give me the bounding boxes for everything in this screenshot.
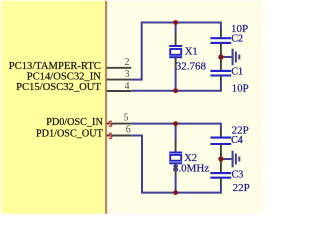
pin 5 line xyxy=(107,123,132,125)
background sheet xyxy=(0,0,265,217)
crystal X2 xyxy=(169,153,182,164)
junction: bottom rail / X1 xyxy=(173,88,178,93)
no-ERC marker pin 6 xyxy=(109,133,112,138)
pin: X2 bottom lead xyxy=(175,163,177,175)
wire: right column bottom segment xyxy=(220,83,221,91)
no-ERC marker pin 5 xyxy=(109,121,112,126)
svg-text:6: 6 xyxy=(126,125,131,136)
svg-text:PC15/OSC32_OUT: PC15/OSC32_OUT xyxy=(16,82,101,93)
wire: X1 bottom xyxy=(175,69,177,91)
svg-text:PD0/OSC_IN: PD0/OSC_IN xyxy=(46,117,103,128)
wire: pin5 rail of 8MHz circuit xyxy=(131,123,221,125)
wire: top rail of 32.768k circuit xyxy=(142,22,221,24)
pin: X2 top lead xyxy=(175,141,177,153)
crystal X1 xyxy=(169,46,182,57)
pin: C3 bottom lead xyxy=(220,178,222,187)
svg-text:PD1/OSC_OUT: PD1/OSC_OUT xyxy=(36,129,104,140)
svg-text:C3: C3 xyxy=(232,169,244,180)
svg-text:5: 5 xyxy=(124,113,129,124)
wire: right column bottom segment (8MHz) xyxy=(220,186,221,193)
wire: right column top segment (8MHz) xyxy=(220,124,221,131)
ground GND2 stub xyxy=(222,158,232,160)
wire: left vertical pin6 down xyxy=(141,135,143,193)
wire: left vertical to pin 3 xyxy=(141,22,143,80)
ground GND1 xyxy=(233,49,240,66)
svg-text:4: 4 xyxy=(125,81,130,92)
capacitor C3 xyxy=(210,173,231,178)
pin: X1 top lead xyxy=(175,33,177,46)
svg-text:PC13/TAMPER-RTC: PC13/TAMPER-RTC xyxy=(9,61,101,72)
pin: C1 bottom lead xyxy=(220,76,222,85)
pin: C2 top lead xyxy=(220,30,222,38)
svg-text:22P: 22P xyxy=(233,182,250,194)
sheet part right border xyxy=(105,1,107,214)
ground GND2 xyxy=(233,151,240,168)
svg-text:8.0MHz: 8.0MHz xyxy=(173,163,209,175)
svg-text:10P: 10P xyxy=(232,82,249,94)
svg-text:PC14/OSC32_IN: PC14/OSC32_IN xyxy=(27,72,102,83)
junction: C4/C3/ground xyxy=(218,156,223,161)
junction: pin5 rail / X2 xyxy=(173,121,178,126)
pin 6 line xyxy=(107,135,132,137)
sheet part body U? (yellow block) xyxy=(1,1,105,214)
wire: bottom rail of 8MHz circuit xyxy=(141,192,221,194)
junction: C2/C1/ground xyxy=(218,54,223,59)
wire: X1 top xyxy=(175,23,177,35)
wire: right column top segment xyxy=(220,23,221,32)
svg-text:C1: C1 xyxy=(231,67,243,78)
junction: bottom rail / X2 xyxy=(173,190,178,195)
pin: C4 top lead xyxy=(220,130,222,138)
ground GND1 stub xyxy=(222,56,232,58)
wire: pin 3 stub xyxy=(131,79,142,81)
svg-text:C2: C2 xyxy=(231,33,243,44)
pin 3 line xyxy=(107,79,132,81)
wire: X2 top xyxy=(175,124,177,142)
capacitor C2 xyxy=(210,38,231,43)
wire: X2 bottom xyxy=(175,175,177,193)
svg-text:X1: X1 xyxy=(185,46,198,57)
svg-text:2: 2 xyxy=(125,57,130,68)
capacitor C1 xyxy=(210,71,231,76)
svg-text:32.768: 32.768 xyxy=(176,60,207,72)
pin 4 line xyxy=(107,90,132,92)
wire: bottom rail of 32.768k circuit (pin 4) xyxy=(131,90,221,92)
svg-text:3: 3 xyxy=(125,69,130,80)
junction: top rail / X1 xyxy=(173,20,178,25)
capacitor C4 xyxy=(210,138,231,144)
pin 2 line xyxy=(107,67,132,69)
pin: C4 bottom lead / C3 top lead xyxy=(220,144,222,173)
pin: C2 bottom lead / C1 top lead xyxy=(220,43,222,71)
svg-text:C4: C4 xyxy=(231,135,243,146)
wire: pin 6 stub xyxy=(131,135,142,137)
pin: X1 bottom lead xyxy=(175,57,177,69)
